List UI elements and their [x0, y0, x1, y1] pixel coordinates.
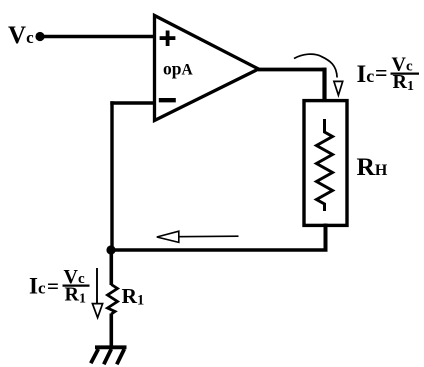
wire feedback node to op-amp - input [110, 101, 156, 250]
label Ic = Vc/R1 (bottom left) [29, 266, 90, 307]
op-amp label opA [163, 59, 193, 79]
label R1 [122, 284, 145, 309]
ground [91, 347, 127, 364]
wire Vc to op-amp + input [40, 35, 156, 39]
node Vc input terminal dot [35, 32, 44, 41]
current flow arrow Ic into RH (curved, open head) [294, 54, 343, 95]
svg-text:Ic: Ic [357, 61, 375, 88]
svg-text:=: = [375, 60, 388, 85]
resistor RH (boxed) [304, 101, 347, 226]
wire RH bottom to feedback node [111, 224, 328, 251]
resistor R1 [108, 250, 118, 346]
op-amp U1 body [155, 16, 259, 121]
label RH [357, 152, 388, 181]
svg-text:opA: opA [163, 59, 193, 79]
op-amp - input pin marker [159, 98, 176, 102]
current arrow Ic through R1 (open head, pointing down) [92, 268, 102, 318]
label Ic = Vc/R1 (top right) [357, 53, 420, 94]
net label Vc [8, 22, 34, 49]
node A feedback junction dot [106, 245, 115, 254]
current direction arrow on feedback wire (open head, pointing left) [157, 231, 239, 242]
op-amp + input pin marker [160, 31, 176, 47]
svg-text:=: = [47, 274, 59, 298]
wire op-amp output to resistor RH top [258, 68, 326, 101]
